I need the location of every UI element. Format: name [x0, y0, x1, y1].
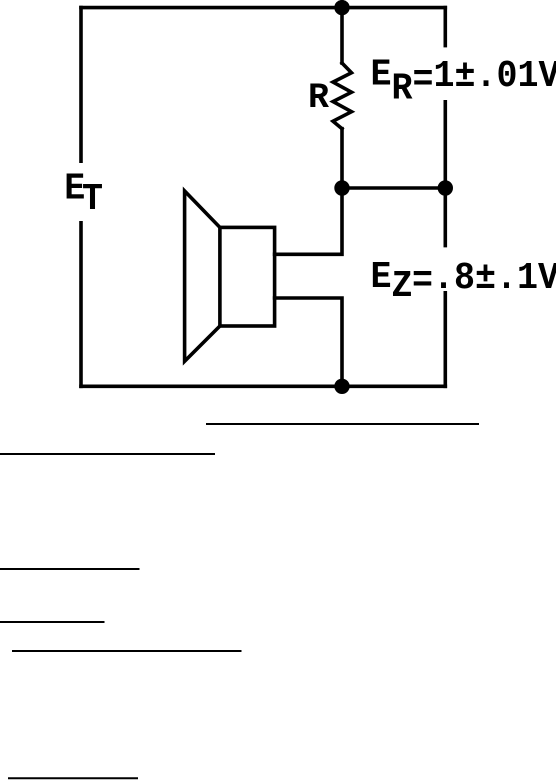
svg-text:E: E [371, 54, 392, 97]
svg-text:E: E [371, 256, 392, 299]
svg-text:=: = [412, 260, 433, 303]
svg-text:.8±.1V: .8±.1V [433, 257, 556, 300]
svg-text:1±.01V: 1±.01V [433, 55, 556, 98]
svg-text:R: R [308, 78, 329, 118]
svg-text:T: T [82, 178, 103, 221]
svg-text:R: R [392, 67, 413, 110]
svg-text:=: = [413, 59, 434, 102]
svg-text:Z: Z [392, 265, 413, 308]
